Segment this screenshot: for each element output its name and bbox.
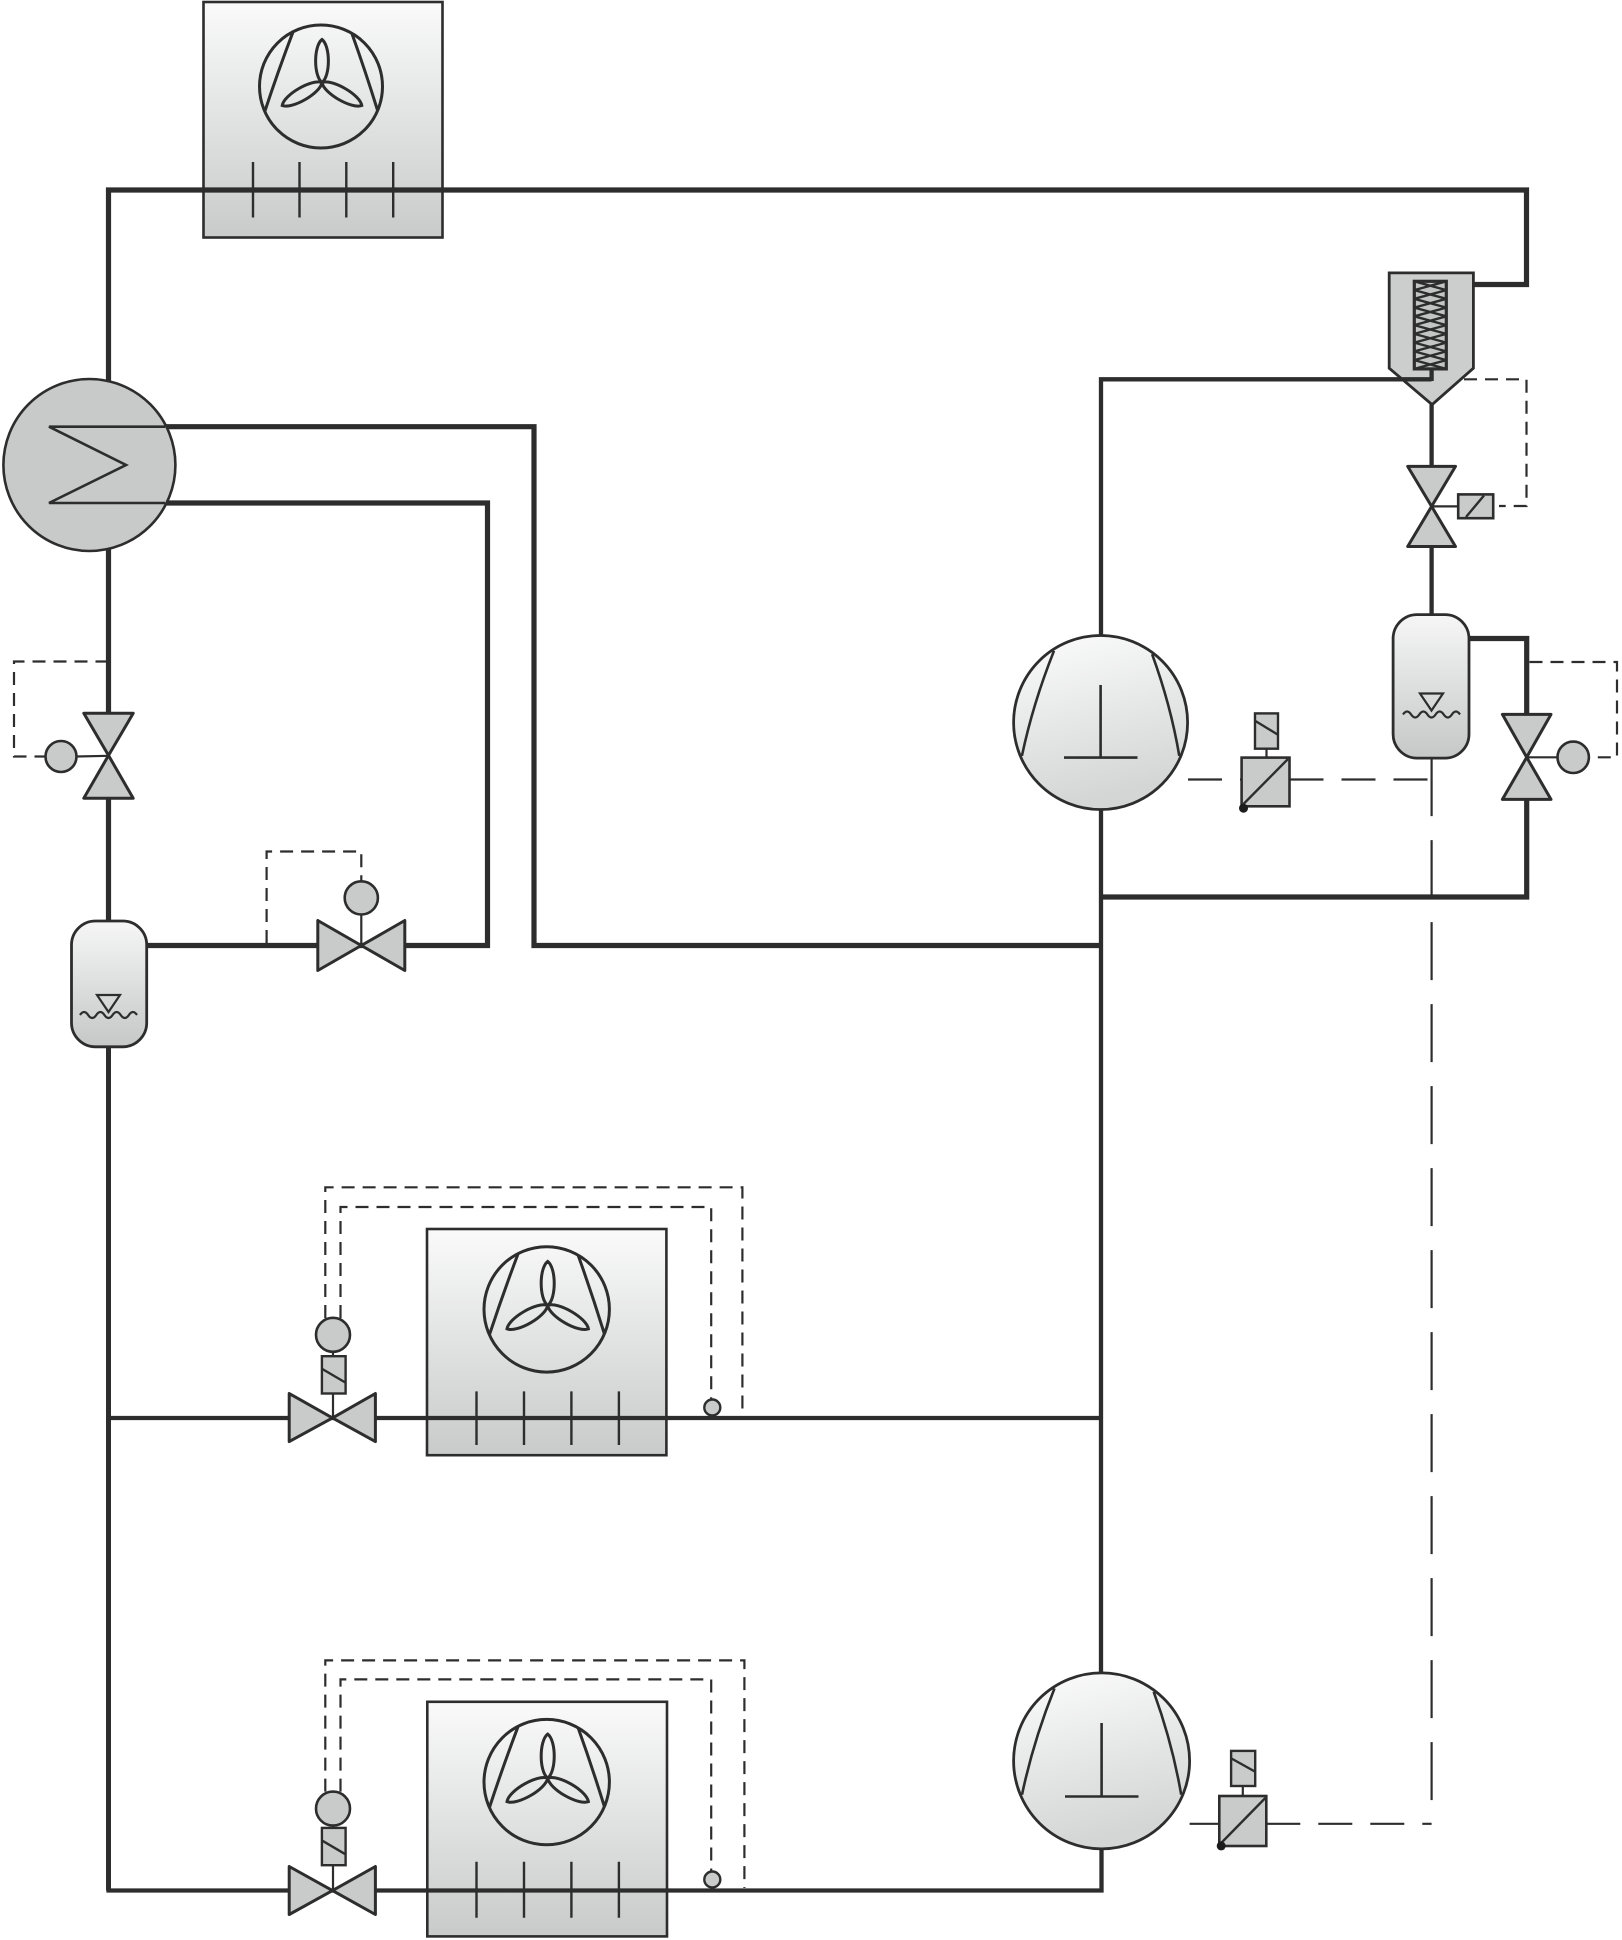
junction dot SV2 (1217, 1841, 1226, 1850)
control dashed line of EV1 (14, 662, 109, 757)
solenoid valve SV2 stem (1242, 1786, 1244, 1796)
wire: hot-gas discharge line (left vertical, top run, down to filter-drier) (109, 190, 1527, 381)
sensor line EV1 to bulb B1 (77, 755, 109, 758)
expansion valve EV1 (left, vertical) (84, 713, 133, 798)
TX1 inner control dashed loop (341, 1207, 712, 1399)
TX2 stem (332, 1826, 334, 1891)
junction dot SV1 (1239, 804, 1248, 813)
wire: main vertical between compressors CP1 and CP2 (1099, 810, 1103, 1674)
filter-drier FD1 inner pipe stub (1429, 369, 1433, 381)
compressor CP1 (top right) (1014, 636, 1188, 810)
actuator stem MV1 (360, 915, 362, 946)
solenoid valve SV1 coil (compressor CP1 unloader) (1255, 713, 1278, 748)
wire: accumulator AC1 outlet through motor valve MV1 to HX1 bottom port (147, 503, 488, 946)
evaporator fan unit FU2 housing (middle) (427, 1229, 666, 1455)
control line CP2 to SV2 to liquid-level line (1190, 1823, 1432, 1825)
wire: bottom evaporator branch to compressor CP2 suction (106, 1849, 1101, 1891)
wire: valve EV3 down to economizer line into suction vertical (1101, 799, 1527, 897)
control dashed line of EV2 (1464, 379, 1527, 506)
condenser FU1 coil fins (tick marks) (253, 162, 393, 218)
sensor line EV3 to bulb B2 (1527, 756, 1558, 758)
wire: expansion valve EV2 to receiver RC1 (1429, 546, 1433, 615)
valve EV3 (right of receiver, vertical) (1502, 714, 1551, 799)
wire: filter-drier FD1 outlet to suction vertical (1101, 379, 1432, 635)
thermostatic expansion valve TX2 (bottom evaporator) (289, 1867, 375, 1915)
solenoid valve SV2 body (1219, 1796, 1266, 1846)
receiver RC1 (right vessel) (1393, 615, 1469, 759)
pilot line EV2 to solenoid SP1 (1432, 505, 1459, 507)
wire: liquid line left vertical below accumulator AC1 (106, 1047, 111, 1891)
TX2 outer control dashed loop (325, 1660, 744, 1888)
motor valve MV1 (horizontal, near accumulator) (318, 921, 405, 971)
wire: filter-drier FD1 inlet stub inside funnel (1400, 377, 1432, 381)
compressor CP2 (bottom right) (1014, 1673, 1190, 1849)
control line CP1 to SV1 to liquid-level line (1188, 778, 1432, 780)
TX2 remote sensor bulb on suction (704, 1872, 720, 1888)
TX1 outer control dashed loop (325, 1187, 742, 1415)
TX1 solenoid coil (322, 1356, 346, 1393)
filter-drier FD1 body (1389, 273, 1473, 405)
wire: receiver RC1 outlet to valve EV3 (1469, 639, 1527, 715)
condenser fan unit FU1 housing (top left) (204, 2, 443, 238)
sensor bulb B2 (1558, 742, 1589, 773)
solenoid valve SV1 body (1242, 758, 1290, 807)
TX1 bulb head (316, 1318, 350, 1352)
evaporator fan FU3 blade and guard (484, 1719, 609, 1844)
accumulator AC1 (left vessel) (72, 921, 147, 1047)
evaporator FU3 coil fins (tick marks) (477, 1862, 619, 1918)
TX2 bulb head (316, 1792, 350, 1826)
wire: HX1 top port to suction riser (165, 427, 1101, 946)
actuator head MV1 (345, 881, 378, 914)
solenoid valve SV1 stem (1265, 749, 1267, 758)
control dashed line of EV3 (1530, 662, 1618, 757)
liquid level control dashed drop line from receiver RC1 (1430, 758, 1432, 1824)
wire: heat exchanger HX1 to expansion valve EV1 (106, 549, 111, 714)
solenoid valve SV2 coil (compressor CP2 unloader) (1231, 1751, 1255, 1786)
thermostatic expansion valve TX1 (middle evaporator) (289, 1394, 375, 1442)
evaporator fan unit FU3 housing (bottom) (427, 1702, 667, 1937)
heat exchanger HX1 (plate HX circle with zig-zag) (3, 379, 175, 551)
sensor bulb B1 (46, 741, 77, 772)
filter-drier FD1 coil core (1414, 281, 1446, 369)
expansion valve EV2 (below filter-drier, vertical) (1408, 466, 1456, 546)
wire: filter-drier FD1 drop leg to expansion valve EV2 (1429, 403, 1433, 467)
control dashed line of MV1 (267, 852, 362, 944)
wire: middle evaporator branch line (109, 1416, 1101, 1420)
evaporator FU2 coil fins (tick marks) (477, 1391, 619, 1445)
TX2 inner control dashed loop (341, 1679, 712, 1871)
TX2 solenoid coil (322, 1828, 346, 1865)
wire: expansion valve EV1 to accumulator AC1 (106, 798, 111, 922)
TX1 remote sensor bulb on suction (704, 1400, 720, 1416)
condenser fan FU1 blade and guard (260, 25, 383, 148)
evaporator fan FU2 blade and guard (484, 1247, 609, 1372)
TX1 stem (332, 1352, 334, 1418)
pilot solenoid SP1 (1458, 494, 1493, 518)
